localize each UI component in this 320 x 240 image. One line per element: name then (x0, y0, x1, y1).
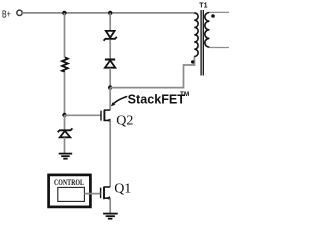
svg-text:Q1: Q1 (114, 182, 131, 197)
transformer primary winding (194, 13, 198, 57)
wire Q2 source to Q1 drain (109, 120, 111, 187)
svg-text:CONTROL: CONTROL (54, 178, 84, 187)
terminal B+ (17, 10, 22, 15)
wire resistor branch upper (64, 13, 66, 58)
transistor Q2 (101, 110, 110, 122)
transistor Q1 (101, 187, 111, 200)
zener diode VR1 (58, 128, 73, 137)
wire Q2 drain (109, 88, 111, 111)
svg-text:StackFET: StackFET (128, 93, 186, 107)
wire zener branch lower (64, 138, 66, 154)
transformer core (201, 10, 203, 76)
wire resistor branch lower (64, 72, 66, 115)
wire D2 to clamp node (109, 68, 111, 88)
node junction dot gate Q2 (62, 113, 66, 117)
transformer secondary winding (205, 12, 210, 47)
secondary phase dot (211, 14, 215, 18)
wire secondary top (209, 11, 229, 13)
wire gate lead Q2 (65, 114, 101, 116)
wire zener branch upper (64, 115, 66, 130)
ground left (59, 154, 72, 159)
svg-text:T1: T1 (199, 3, 207, 10)
wire diode chain upper (109, 13, 111, 31)
wire secondary bottom (209, 47, 229, 49)
ground bottom (103, 214, 118, 219)
wire Q1 source (109, 198, 111, 213)
resistor R1 (62, 57, 68, 72)
node clamp junction dot (108, 85, 112, 89)
svg-text:Q2: Q2 (116, 113, 133, 128)
node junction dot rail-diode chain (108, 11, 112, 15)
svg-text:TM: TM (180, 91, 189, 98)
primary phase dot (191, 60, 194, 63)
svg-text:B+: B+ (2, 9, 11, 20)
wire control to Q1 gate (84, 193, 100, 195)
node junction dot rail-resistor (62, 11, 66, 15)
wire top rail (22, 12, 194, 14)
wire clamp return to primary (110, 57, 194, 88)
control box inner rect (58, 187, 85, 201)
control box frame (49, 175, 91, 207)
diode D2 (105, 60, 115, 68)
wire between D1 and D2 (109, 40, 111, 60)
annotation arrow to Q2 (111, 96, 127, 106)
diode D1 zener (104, 31, 117, 41)
